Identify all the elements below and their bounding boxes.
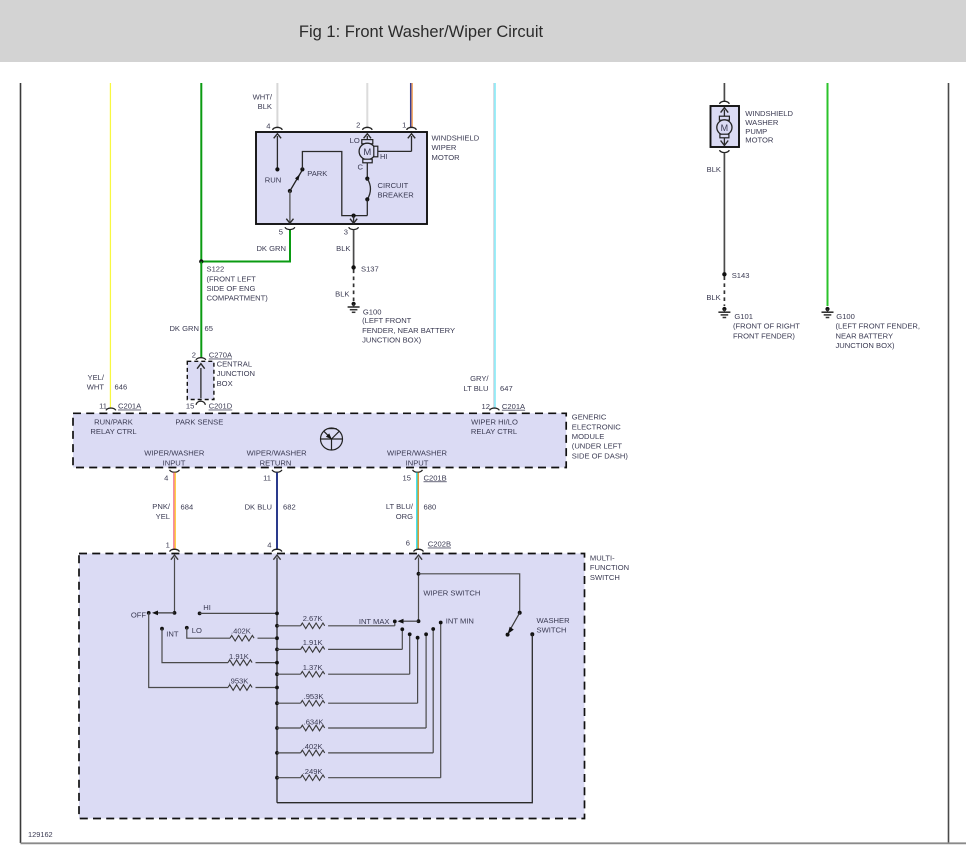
svg-text:6: 6 — [406, 539, 410, 548]
svg-text:SIDE OF ENG: SIDE OF ENG — [207, 284, 256, 293]
svg-text:YEL: YEL — [156, 512, 170, 521]
svg-text:ELECTRONIC: ELECTRONIC — [572, 422, 621, 431]
label WINDSHIELD WASHER PUMP MOTOR — [745, 109, 793, 144]
svg-text:LT BLU/: LT BLU/ — [386, 502, 414, 511]
svg-text:RUN/PARK: RUN/PARK — [94, 417, 133, 426]
label WASHER SWITCH — [537, 616, 571, 635]
GEM label right — [572, 413, 629, 461]
svg-text:C201D: C201D — [209, 402, 233, 411]
svg-text:FRONT FENDER): FRONT FENDER) — [733, 331, 795, 340]
svg-text:C201A: C201A — [118, 402, 142, 411]
svg-text:3: 3 — [344, 228, 348, 237]
svg-text:WIPER HI/LO: WIPER HI/LO — [471, 417, 518, 426]
svg-text:PUMP: PUMP — [745, 127, 767, 136]
ground G100 (right) — [822, 307, 921, 350]
svg-text:WHT: WHT — [87, 382, 105, 391]
svg-text:(FRONT OF RIGHT: (FRONT OF RIGHT — [733, 322, 800, 331]
splice S137 — [351, 264, 378, 273]
svg-text:SIDE OF DASH): SIDE OF DASH) — [572, 451, 629, 460]
svg-text:DK GRN: DK GRN — [169, 324, 199, 333]
svg-text:1.91K: 1.91K — [229, 652, 249, 661]
svg-text:M: M — [721, 123, 729, 133]
svg-text:PNK/: PNK/ — [152, 502, 171, 511]
resistor 1.37K (right) — [277, 632, 412, 677]
svg-text:WHT/: WHT/ — [253, 92, 273, 101]
svg-text:WIPER/WASHER: WIPER/WASHER — [247, 448, 308, 457]
svg-text:(FRONT LEFT: (FRONT LEFT — [207, 274, 257, 283]
frame bottom border — [21, 842, 966, 844]
svg-text:(LEFT FRONT FENDER,: (LEFT FRONT FENDER, — [836, 322, 921, 331]
svg-text:C201B: C201B — [424, 473, 447, 482]
wire DK BLU/ORG vertical (motor pin 1) — [411, 83, 413, 128]
svg-text:C202B: C202B — [428, 540, 451, 549]
svg-text:2: 2 — [356, 120, 360, 129]
svg-text:.953K: .953K — [304, 692, 324, 701]
motor internal wire park to bottom — [302, 152, 367, 216]
svg-text:4: 4 — [164, 473, 168, 482]
svg-text:2.67K: 2.67K — [303, 614, 323, 623]
resistor 1.91K (left) — [228, 652, 277, 666]
svg-text:INT MAX: INT MAX — [359, 617, 390, 626]
svg-text:FUNCTION: FUNCTION — [590, 563, 629, 572]
resistor 1.91K (right) — [277, 627, 404, 652]
label WINDSHIELD WIPER MOTOR — [432, 134, 480, 162]
HI contact and wire — [198, 603, 277, 615]
labels PNK/YEL 684 — [152, 502, 193, 521]
splice S143 — [722, 271, 749, 280]
svg-text:LO: LO — [192, 626, 202, 635]
dashed BLK wire to G101 — [723, 276, 725, 306]
svg-text:COMPARTMENT): COMPARTMENT) — [207, 294, 269, 303]
wire GRN right vertical — [827, 83, 829, 306]
washer switch — [506, 611, 535, 637]
svg-text:RUN: RUN — [265, 176, 281, 185]
svg-text:BLK: BLK — [335, 289, 349, 298]
svg-text:.249K: .249K — [303, 767, 323, 776]
svg-text:WASHER: WASHER — [537, 616, 571, 625]
svg-text:15: 15 — [403, 473, 411, 482]
resistor .634K (right) — [277, 632, 428, 730]
svg-text:G101: G101 — [734, 312, 753, 321]
svg-text:JUNCTION BOX): JUNCTION BOX) — [836, 341, 896, 350]
connector cup below pump — [720, 150, 730, 153]
connector dome above pump — [720, 101, 730, 104]
connector domes above MFS pins 1 4 6 — [166, 539, 451, 552]
svg-text:LO: LO — [350, 136, 360, 145]
svg-text:JUNCTION BOX): JUNCTION BOX) — [362, 336, 422, 345]
wire BLK motor pin 3 to S137 — [353, 230, 355, 268]
circuit breaker — [365, 163, 414, 216]
svg-text:WINDSHIELD: WINDSHIELD — [745, 109, 793, 118]
svg-text:INPUT: INPUT — [406, 458, 429, 467]
wire LT BLU/ORG — [417, 473, 418, 550]
wire WHT/BLK vertical (motor pin 4) — [276, 83, 278, 128]
svg-text:S143: S143 — [732, 271, 750, 280]
MFS pin 1 entry arrow and wire — [171, 555, 178, 615]
resistor .953K (right) — [277, 636, 420, 706]
svg-text:LT BLU: LT BLU — [463, 384, 488, 393]
wire DK GRN to CJB — [200, 262, 202, 358]
svg-text:WINDSHIELD: WINDSHIELD — [432, 134, 480, 143]
svg-text:684: 684 — [181, 503, 194, 512]
svg-text:(UNDER LEFT: (UNDER LEFT — [572, 442, 623, 451]
svg-text:SWITCH: SWITCH — [537, 626, 567, 635]
svg-text:RETURN: RETURN — [260, 458, 292, 467]
svg-text:RELAY CTRL: RELAY CTRL — [471, 427, 517, 436]
svg-text:G100: G100 — [836, 312, 855, 321]
labels LT BLU/ORG 680 — [386, 502, 436, 521]
MFS pin 4 entry arrow and main bus — [273, 555, 280, 803]
dashed BLK wire to ground — [353, 270, 355, 302]
svg-text:M: M — [363, 147, 371, 158]
bus junction dots — [275, 612, 279, 780]
svg-text:JUNCTION: JUNCTION — [217, 369, 255, 378]
svg-text:65: 65 — [205, 324, 213, 333]
svg-text:SWITCH: SWITCH — [590, 573, 620, 582]
svg-text:WIPER/WASHER: WIPER/WASHER — [387, 448, 448, 457]
svg-text:MOTOR: MOTOR — [745, 136, 774, 145]
svg-text:C: C — [358, 162, 364, 171]
wiper switch arm to INT MAX — [359, 617, 419, 626]
GEM pin labels — [90, 417, 518, 467]
wire LO to .402K resistor — [187, 628, 230, 638]
svg-text:Fig 1: Front Washer/Wiper Circ: Fig 1: Front Washer/Wiper Circuit — [299, 23, 544, 41]
svg-text:MULTI-: MULTI- — [590, 553, 615, 562]
svg-text:GRY/: GRY/ — [470, 374, 489, 383]
motor LO brush and M circle — [350, 134, 388, 172]
motor pin 5 drop wire and arrow — [286, 191, 293, 223]
svg-text:BOX: BOX — [217, 379, 233, 388]
INT contact — [160, 627, 179, 639]
svg-text:.402K: .402K — [303, 742, 323, 751]
resistor .402K (right) — [277, 627, 435, 756]
connector 11 C201A at GEM — [99, 402, 142, 411]
resistor .953K (left) — [228, 677, 277, 691]
connector 2 C270A at CJB — [192, 351, 233, 360]
svg-text:1.37K: 1.37K — [303, 663, 323, 672]
svg-text:PARK: PARK — [307, 169, 327, 178]
windshield wiper motor box — [256, 132, 427, 224]
MFS pin 6 entry arrow and wire — [415, 555, 422, 623]
title bar — [0, 0, 966, 62]
windshield washer pump motor box — [711, 106, 740, 147]
ground G101 — [718, 307, 800, 340]
svg-text:BLK: BLK — [707, 165, 721, 174]
svg-text:11: 11 — [99, 402, 107, 411]
motor PARK switch — [288, 167, 328, 193]
svg-text:INPUT: INPUT — [163, 458, 186, 467]
wire DK GRN vertical (left) — [200, 83, 202, 262]
central junction box CJB — [187, 359, 255, 399]
resistor 2.67K (right) — [277, 614, 397, 628]
labels DK BLU 682 — [245, 503, 296, 512]
svg-text:11: 11 — [263, 473, 271, 482]
svg-text:646: 646 — [115, 382, 128, 391]
svg-text:WIPER SWITCH: WIPER SWITCH — [423, 588, 480, 597]
svg-text:HI: HI — [203, 603, 211, 612]
splice S122 — [199, 259, 268, 302]
svg-text:WIPER: WIPER — [432, 143, 457, 152]
svg-text:5: 5 — [279, 228, 283, 237]
LO contact — [185, 626, 202, 635]
frame left border — [20, 83, 22, 843]
frame right border — [948, 83, 950, 843]
svg-text:BLK: BLK — [258, 102, 272, 111]
svg-text:FENDER, NEAR BATTERY: FENDER, NEAR BATTERY — [362, 326, 455, 335]
svg-text:MOTOR: MOTOR — [432, 153, 461, 162]
svg-text:BLK: BLK — [336, 244, 350, 253]
svg-text:CIRCUIT: CIRCUIT — [378, 181, 409, 190]
resistor .249K (right) — [277, 621, 443, 781]
motor pin 4 internal arrow and RUN contact — [265, 134, 281, 185]
svg-text:PARK SENSE: PARK SENSE — [175, 417, 223, 426]
svg-text:INT MIN: INT MIN — [446, 616, 474, 625]
svg-text:(LEFT FRONT: (LEFT FRONT — [362, 316, 412, 325]
generic electronic module GEM box — [73, 413, 566, 467]
wire DK GRN from motor pin 5 elbow — [201, 230, 290, 262]
wire WHT vertical (motor pin 2) — [366, 83, 368, 128]
svg-text:4: 4 — [267, 541, 271, 550]
svg-text:INT: INT — [166, 630, 179, 639]
svg-text:129162: 129162 — [28, 830, 53, 839]
svg-text:ORG: ORG — [396, 512, 413, 521]
motor pin 1 internal wire from HI — [378, 134, 415, 152]
svg-text:GENERIC: GENERIC — [572, 413, 607, 422]
wire YEL/WHT vertical — [110, 83, 111, 408]
pump motor internals — [717, 108, 732, 146]
resistor .402K (left) — [230, 627, 277, 641]
svg-text:WASHER: WASHER — [745, 118, 779, 127]
wire GRY/LT BLU vertical — [494, 83, 495, 408]
svg-text:S122: S122 — [207, 265, 225, 274]
wire BLK to washer pump — [723, 83, 725, 101]
connector 12 C201A at GEM — [482, 402, 527, 411]
svg-text:1.91K: 1.91K — [303, 638, 323, 647]
CJB internal arrow — [197, 364, 205, 399]
wire OFF to .953K resistor — [149, 613, 228, 688]
svg-text:.953K: .953K — [229, 677, 249, 686]
multi-function switch box — [79, 554, 585, 819]
svg-text:1: 1 — [166, 541, 170, 550]
svg-text:C270A: C270A — [209, 351, 233, 360]
svg-text:RELAY CTRL: RELAY CTRL — [90, 427, 136, 436]
motor pin 3 junction and arrow — [350, 214, 357, 224]
svg-text:BREAKER: BREAKER — [378, 190, 415, 199]
wire DK BLU — [276, 473, 278, 550]
svg-text:S137: S137 — [361, 264, 379, 273]
connector 15 C201D below CJB — [186, 401, 233, 411]
GEM timer symbol — [321, 428, 343, 450]
svg-text:YEL/: YEL/ — [88, 373, 105, 382]
svg-text:680: 680 — [424, 503, 437, 512]
connector cups below GEM pins 4 11 15 — [164, 470, 447, 483]
ground G100 (middle) — [348, 302, 455, 345]
washer switch feed wire — [419, 574, 520, 612]
svg-text:CENTRAL: CENTRAL — [217, 359, 252, 368]
svg-text:DK GRN: DK GRN — [256, 244, 286, 253]
svg-text:15: 15 — [186, 402, 194, 411]
svg-text:12: 12 — [482, 402, 490, 411]
svg-text:OFF: OFF — [131, 610, 147, 619]
svg-text:MODULE: MODULE — [572, 432, 605, 441]
svg-text:4: 4 — [266, 121, 270, 130]
wire PNK/YEL — [174, 473, 175, 550]
svg-text:.634K: .634K — [304, 717, 324, 726]
svg-text:2: 2 — [192, 351, 196, 360]
wire BLK pump to S143 — [723, 153, 725, 274]
svg-text:DK BLU: DK BLU — [245, 503, 272, 512]
connector arcs at motor top pins 4 2 1 — [266, 120, 416, 130]
OFF contact and arrow — [131, 610, 175, 619]
svg-text:WIPER/WASHER: WIPER/WASHER — [144, 448, 205, 457]
svg-text:C201A: C201A — [502, 402, 526, 411]
svg-text:BLK: BLK — [706, 293, 720, 302]
connector cups below motor pins 5 and 3 — [279, 227, 359, 236]
svg-text:1: 1 — [402, 120, 406, 129]
svg-text:682: 682 — [283, 503, 296, 512]
svg-text:HI: HI — [380, 152, 388, 161]
washer switch to bus bottom wire — [277, 634, 532, 802]
svg-text:647: 647 — [500, 384, 513, 393]
wire INT to 1.91K resistor — [162, 629, 228, 663]
label MULTI-FUNCTION SWITCH — [590, 553, 629, 581]
svg-text:.402K: .402K — [231, 627, 251, 636]
svg-text:NEAR BATTERY: NEAR BATTERY — [836, 331, 894, 340]
